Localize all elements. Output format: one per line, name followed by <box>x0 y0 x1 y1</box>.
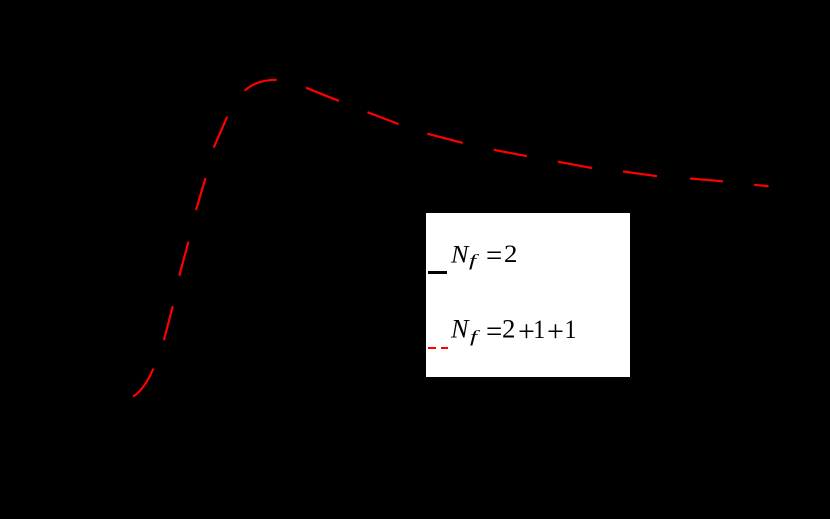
legend label Nf=2 <box>450 242 462 362</box>
legend sample line Nf=2+1+1 (red dashed) <box>428 347 436 349</box>
legend box <box>426 213 630 377</box>
legend sample line Nf=2 (black solid) <box>428 271 447 273</box>
legend label Nf=2+1+1 <box>451 317 463 519</box>
